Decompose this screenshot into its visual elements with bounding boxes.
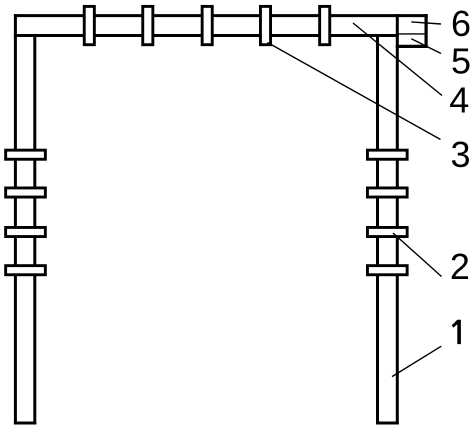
- leader line 2: [393, 233, 442, 277]
- left post clamp tick L1: [6, 150, 46, 159]
- beam clamp tick B3: [202, 6, 212, 44]
- corner box 6 thin interior line: [396, 33, 427, 35]
- svg-text:5: 5: [451, 41, 471, 82]
- leader line 6: [411, 22, 441, 24]
- label 1: [452, 320, 461, 344]
- left post clamp tick L2: [6, 188, 46, 197]
- corner box 6 bottom edge: [396, 45, 428, 48]
- right post outer line: [396, 14, 399, 424]
- right post clamp tick R2: [367, 188, 407, 197]
- svg-text:6: 6: [451, 3, 471, 44]
- right post inner line: [376, 34, 379, 424]
- beam clamp tick B4: [260, 6, 270, 44]
- leader line 4: [353, 23, 442, 96]
- right post bottom cap: [376, 422, 399, 425]
- right post clamp tick R3: [367, 227, 407, 236]
- beam bottom chord: [14, 34, 399, 37]
- beam top chord: [14, 14, 428, 17]
- left post clamp tick L4: [6, 266, 46, 275]
- svg-text:4: 4: [449, 80, 469, 121]
- left post outer line: [14, 14, 17, 424]
- left post inner line: [33, 34, 36, 424]
- right post clamp tick R1: [367, 150, 407, 159]
- svg-text:2: 2: [450, 246, 470, 287]
- right post clamp tick R4: [367, 266, 407, 275]
- svg-text:3: 3: [450, 134, 470, 175]
- beam clamp tick B1: [84, 6, 94, 44]
- leader line 1: [392, 346, 441, 376]
- left post clamp tick L3: [6, 227, 46, 236]
- beam clamp tick B2: [143, 6, 153, 44]
- leader line 5: [411, 39, 441, 54]
- corner box 6 right edge: [425, 14, 428, 48]
- beam clamp tick B5: [320, 6, 330, 44]
- leader line 3: [268, 43, 441, 140]
- left post bottom cap: [14, 422, 36, 425]
